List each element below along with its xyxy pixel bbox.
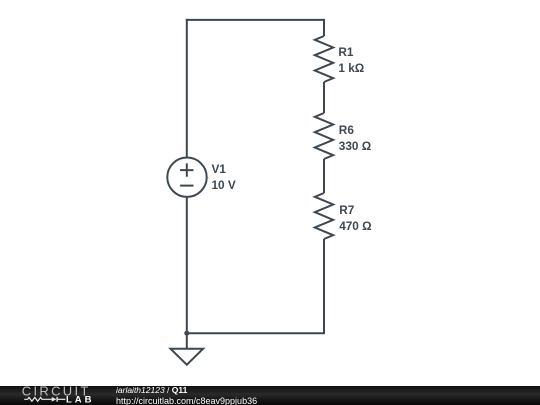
node junction dot	[184, 331, 189, 336]
wire ground stem	[186, 333, 188, 349]
wire left upper	[186, 19, 188, 158]
wire left lower	[186, 197, 188, 334]
svg-text:10 V: 10 V	[212, 178, 236, 192]
footer title text	[116, 385, 187, 395]
svg-text:1 kΩ: 1 kΩ	[338, 61, 364, 75]
label R7 value	[339, 219, 371, 233]
label R6 value	[339, 139, 371, 153]
label V1 value	[212, 178, 236, 192]
label R1 value	[338, 61, 364, 75]
resistor R6	[315, 113, 333, 159]
label R7 designator	[339, 203, 355, 217]
svg-text:LAB: LAB	[66, 394, 95, 405]
resistor R1	[315, 36, 333, 82]
label V1 designator	[212, 162, 227, 176]
svg-text:470 Ω: 470 Ω	[339, 219, 371, 233]
svg-text:R6: R6	[339, 123, 355, 137]
wire right: R7 to bottom	[323, 239, 325, 334]
wire right: top to R1	[323, 19, 325, 36]
label R6 designator	[339, 123, 355, 137]
wire top horizontal	[186, 19, 325, 21]
footer url text	[116, 396, 257, 405]
voltage source V1	[167, 158, 206, 197]
footer bar	[0, 386, 540, 405]
wire right: R1 to R6	[323, 82, 325, 113]
svg-text:330 Ω: 330 Ω	[339, 139, 371, 153]
svg-text:R7: R7	[339, 203, 355, 217]
svg-text:R1: R1	[338, 45, 354, 59]
label R1 designator	[338, 45, 354, 59]
CircuitLab logo	[0, 386, 100, 405]
wire bottom horizontal	[186, 332, 325, 334]
svg-text:V1: V1	[212, 162, 227, 176]
wire right: R6 to R7	[323, 159, 325, 193]
ground	[171, 349, 204, 365]
resistor R7	[315, 193, 333, 239]
